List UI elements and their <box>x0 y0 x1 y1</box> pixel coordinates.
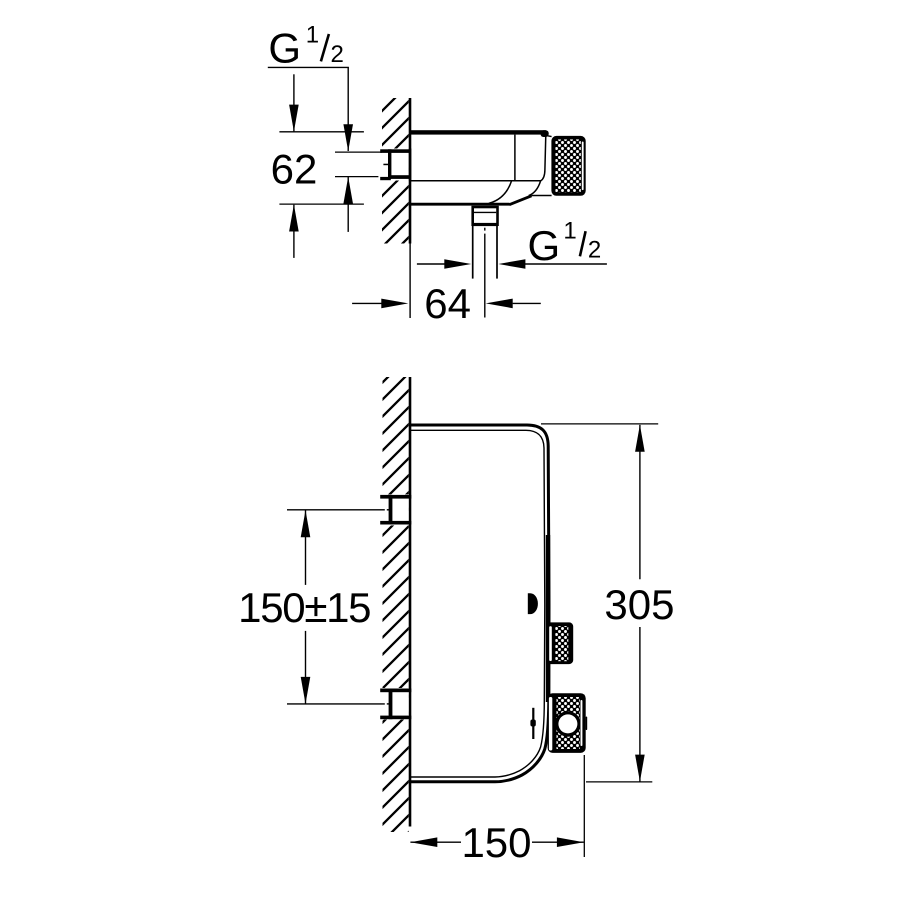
svg-text:305: 305 <box>604 581 674 628</box>
svg-text:G: G <box>528 222 561 269</box>
svg-text:2: 2 <box>588 237 601 264</box>
svg-text:1: 1 <box>306 22 319 49</box>
svg-text:2: 2 <box>331 41 344 68</box>
svg-text:62: 62 <box>271 145 318 192</box>
svg-text:G: G <box>268 25 301 72</box>
svg-text:1: 1 <box>563 218 576 245</box>
svg-text:150±15: 150±15 <box>238 584 370 631</box>
svg-text:64: 64 <box>424 280 471 327</box>
svg-text:150: 150 <box>461 819 531 866</box>
